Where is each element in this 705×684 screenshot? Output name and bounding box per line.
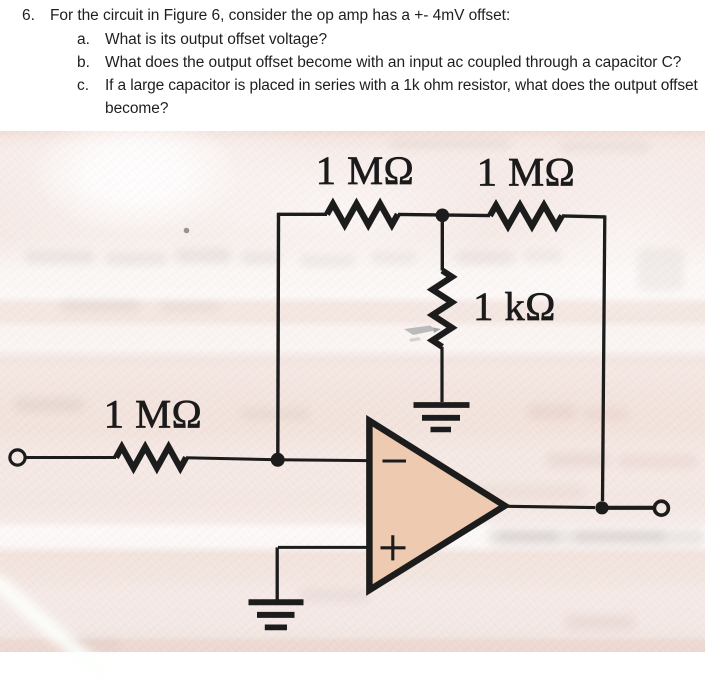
wire non-inverting input — [278, 546, 369, 549]
smudge artifact near 1k resistor — [404, 326, 441, 343]
resistor R-feedback-2 1 MΩ (top right zigzag) — [490, 205, 562, 226]
question item a — [77, 31, 90, 49]
node B junction dot (top wire / 1k) — [436, 209, 450, 223]
node C junction dot (output) — [595, 501, 608, 514]
wire node to inverting input — [278, 458, 369, 462]
white diagonal streak bottom-left — [0, 570, 112, 684]
node A junction dot (inverting input node) — [271, 453, 285, 467]
input terminal (open circle) — [10, 450, 25, 465]
svg-text:1 kΩ: 1 kΩ — [473, 284, 556, 329]
wire 1k bottom lead — [440, 347, 443, 402]
resistor R-in 1 MΩ (input zigzag) — [116, 447, 186, 468]
speck artifact — [184, 228, 190, 234]
question text line 1 — [22, 7, 35, 25]
ghost text row 2 — [60, 300, 140, 312]
wire node to output terminal — [602, 506, 654, 510]
svg-text:1 MΩ: 1 MΩ — [104, 392, 202, 437]
wire 1k top lead — [441, 216, 444, 271]
svg-text:1 MΩ: 1 MΩ — [477, 150, 575, 195]
scanned figure background — [0, 131, 705, 652]
resistor R-feedback-1 1 MΩ (top left zigzag) — [327, 204, 398, 225]
ghost blotches near input label — [14, 398, 84, 412]
question item b — [77, 54, 90, 72]
ghost text row mid-left (coords rel to scan) — [25, 251, 95, 263]
wire top-left lead — [279, 213, 328, 216]
op-amp minus sign — [383, 459, 407, 462]
ghost blotches top strip — [390, 139, 510, 149]
wire right vertical (output feedback) — [603, 215, 605, 501]
op-amp U1 triangle — [369, 421, 504, 590]
op-amp plus sign — [381, 535, 406, 560]
resistor R3 1 kΩ (vertical zigzag) — [432, 271, 452, 347]
question item c — [77, 77, 89, 95]
ground GND2 (non-inverting input) — [249, 599, 304, 605]
wire top-right lead — [562, 216, 605, 217]
wire top middle — [398, 214, 490, 215]
ghost blotch under triangle — [300, 588, 370, 602]
wire down to ground 2 — [276, 547, 279, 599]
wire left vertical (feedback down) — [276, 213, 280, 460]
wire output — [506, 506, 595, 507]
ground GND1 (below 1k resistor) — [414, 402, 470, 408]
svg-text:1 MΩ: 1 MΩ — [316, 148, 414, 193]
output terminal (open circle) — [654, 501, 668, 515]
bleed-through ghost marks (coords relative to scan top=131) — [527, 405, 577, 420]
wire input lead — [25, 456, 116, 459]
wire input to node — [186, 458, 278, 460]
